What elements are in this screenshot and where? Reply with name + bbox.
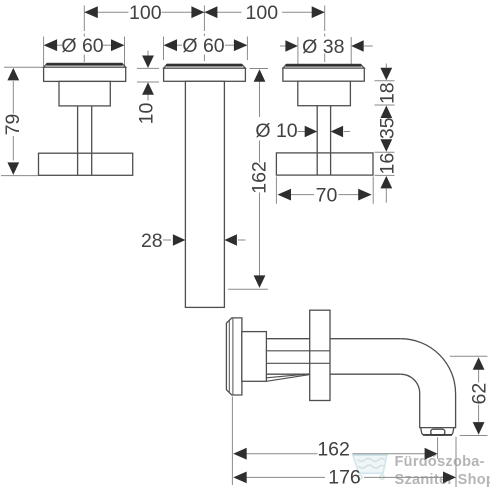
svg-text:79: 79 (2, 114, 24, 136)
svg-text:70: 70 (316, 184, 338, 206)
dimension 100 right (204, 2, 324, 24)
right handle escutcheon (283, 68, 364, 81)
svg-text:162: 162 (249, 161, 271, 194)
svg-text:100: 100 (246, 2, 279, 24)
svg-text:10: 10 (136, 103, 158, 125)
center line spout (203, 6, 205, 62)
svg-text:18: 18 (377, 82, 399, 104)
spout escutcheon (164, 68, 246, 81)
spout pipe top line (266, 338, 400, 340)
left handle stem (78, 106, 92, 175)
dimension 176 projection (233, 466, 456, 488)
spout escutcheon bevel (164, 64, 246, 68)
svg-text:Ø 60: Ø 60 (61, 35, 103, 57)
svg-text:16: 16 (377, 153, 399, 175)
left handle escutcheon bevel (44, 63, 126, 67)
svg-text:Ø 38: Ø 38 (302, 36, 344, 58)
right handle stem (317, 106, 330, 175)
dimension chain 18 / 35 / 16 (375, 64, 399, 203)
aerator (421, 428, 454, 435)
svg-text:176: 176 (328, 466, 361, 488)
extension line wall (231, 397, 233, 486)
svg-text:35: 35 (377, 117, 399, 139)
right handle bar (276, 153, 373, 175)
spout pipe bottom line (266, 373, 400, 375)
spout curve (401, 339, 456, 428)
svg-text:Fürdőszoba-: Fürdőszoba- (395, 454, 485, 470)
svg-text:Ø 10: Ø 10 (255, 120, 297, 142)
inner pipe lines through bar (266, 351, 330, 364)
dimension 162 vertical (228, 69, 271, 290)
left handle escutcheon (44, 67, 126, 81)
svg-text:Szaniter Shop: Szaniter Shop (395, 472, 490, 488)
dimension 162 projection (233, 438, 437, 460)
taper lines under pipe (266, 374, 309, 382)
svg-text:Ø 60: Ø 60 (182, 35, 224, 57)
svg-text:28: 28 (141, 230, 163, 252)
center line left handle (83, 6, 85, 63)
spout pipe front view (185, 81, 224, 307)
label Ø10 with leader (255, 120, 350, 142)
left handle body (59, 81, 110, 106)
dimension 100 left (84, 2, 204, 24)
svg-text:162: 162 (317, 438, 350, 460)
svg-text:100: 100 (129, 2, 162, 24)
extension line outlet axis (437, 437, 439, 459)
cross handle bar side view (310, 310, 330, 400)
dimension 62 (450, 356, 490, 435)
right handle body (298, 81, 351, 106)
dimension Ø60 spout (164, 35, 248, 60)
svg-text:62: 62 (469, 383, 490, 405)
wall escutcheon side view (226, 318, 242, 395)
center line right handle (324, 6, 326, 63)
dimension 70 (276, 177, 373, 207)
left handle bar (39, 153, 133, 175)
dimension 28 (141, 230, 246, 252)
dimension 10 escutcheon height (136, 51, 160, 125)
dimension 79 (1, 67, 45, 175)
right handle escutcheon bevel (283, 64, 364, 68)
dimension Ø38 right handle (280, 36, 373, 67)
watermark bathtub logo (353, 455, 387, 479)
dimension Ø60 left handle (44, 35, 125, 66)
extension line spout tip (455, 437, 457, 487)
spout body side view (242, 332, 267, 382)
